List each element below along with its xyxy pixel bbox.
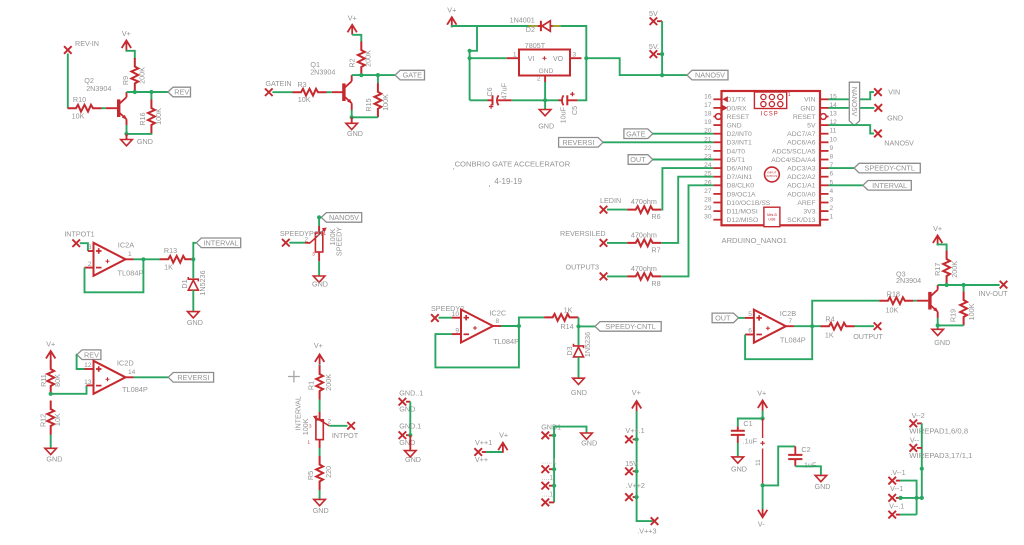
svg-text:R11: R11 — [39, 374, 48, 387]
net flag NANO5V (speedypot) — [321, 213, 361, 223]
pin 15 VIN — [820, 98, 829, 100]
svg-text:V++.1: V++.1 — [625, 426, 644, 435]
pin 4 ADC0/A0 — [820, 193, 829, 195]
svg-text:GATE: GATE — [403, 71, 422, 80]
svg-text:V+: V+ — [348, 13, 357, 22]
ground — [405, 451, 417, 457]
wire R8 to pin26 — [661, 185, 713, 276]
svg-text:2: 2 — [537, 76, 541, 83]
wire output up to R18 — [812, 301, 879, 327]
wire SPEEDY2 to pin10 — [439, 317, 453, 319]
svg-text:GND..1: GND..1 — [399, 388, 423, 397]
wire to C1 — [738, 419, 763, 427]
junction — [149, 90, 153, 94]
power V+ (GATE stage) — [348, 25, 357, 35]
svg-text:220: 220 — [324, 466, 333, 478]
wire GND.1 stub — [406, 434, 410, 436]
junction — [899, 496, 903, 500]
svg-text:3: 3 — [88, 244, 92, 251]
svg-text:R3: R3 — [297, 80, 306, 89]
wire R5 to GND — [319, 490, 321, 499]
ground — [581, 433, 593, 439]
junction — [635, 495, 639, 499]
svg-text:1K: 1K — [564, 305, 573, 314]
wire pin5 to INTERVAL — [829, 184, 863, 186]
svg-text:GATE: GATE — [626, 129, 645, 138]
pin X OUTPUT — [874, 322, 882, 330]
wire Q2 emitter to GND node — [126, 119, 128, 125]
wire Q2 collector — [126, 92, 128, 97]
svg-text:7805T: 7805T — [525, 41, 546, 50]
svg-text:VI: VI — [528, 56, 535, 63]
power V+ (V++ column) — [632, 401, 641, 411]
svg-text:INTERVAL: INTERVAL — [203, 238, 238, 247]
svg-text:14: 14 — [128, 369, 136, 376]
svg-text:GND: GND — [815, 482, 831, 491]
svg-text:.1uF: .1uF — [802, 461, 817, 470]
junction — [468, 56, 472, 60]
svg-text:7: 7 — [788, 318, 792, 325]
pin 10 ADC6/A6 — [820, 141, 829, 143]
svg-text:19: 19 — [704, 119, 712, 126]
pin 18 RESET — [713, 116, 721, 118]
svg-text:200K: 200K — [363, 50, 372, 67]
svg-text:GND.1: GND.1 — [399, 422, 421, 431]
wire VO to NANO5V rail — [586, 58, 687, 75]
op-amp IC2B TL084P — [754, 310, 786, 343]
svg-text:4-19-19: 4-19-19 — [494, 177, 522, 186]
potentiometer INTPOT INTERVAL 100K — [319, 412, 321, 420]
power V+ (V++1) — [498, 443, 507, 453]
wire V--1 — [896, 497, 901, 499]
svg-text:2: 2 — [328, 418, 332, 425]
svg-text:V--.1: V--.1 — [889, 502, 904, 511]
wire OUTPUT3 to R8 — [607, 275, 627, 277]
wire V+ to R2 — [352, 35, 361, 42]
svg-text:RESET: RESET — [793, 114, 816, 121]
transistor Q2 2N3904 — [117, 99, 120, 117]
battery B1 — [762, 419, 764, 439]
wire D1 to GND — [192, 290, 194, 311]
zener diode D3 1N5236 — [574, 344, 584, 348]
net flag REVERSI (arduino) — [559, 138, 604, 148]
svg-text:10: 10 — [830, 136, 838, 143]
wire IC2A feedback — [85, 267, 94, 269]
pin 20 D2/INT0 — [713, 133, 721, 135]
svg-text:ADC4/SDA/A4: ADC4/SDA/A4 — [771, 157, 815, 164]
wire LEDIN to R6 — [607, 209, 627, 211]
svg-text:OUTPUT: OUTPUT — [853, 332, 883, 341]
svg-text:ADC5/SCL/A5: ADC5/SCL/A5 — [772, 148, 816, 155]
svg-text:1K: 1K — [825, 330, 834, 339]
svg-text:C6: C6 — [485, 87, 494, 96]
svg-text:D5/T1: D5/T1 — [727, 157, 746, 164]
op-amp IC2D TL084P — [94, 361, 126, 394]
ground — [937, 325, 939, 329]
resistor R8 470ohm — [627, 273, 661, 280]
svg-text:SPEEDY-CNTL: SPEEDY-CNTL — [605, 322, 655, 331]
wire IC2C output — [493, 325, 501, 327]
svg-text:....1: ....1 — [542, 475, 554, 482]
junction — [576, 324, 580, 328]
svg-text:1K: 1K — [164, 263, 173, 272]
ground — [732, 457, 744, 463]
wire GND1 vertical — [553, 435, 555, 502]
svg-text:VIN: VIN — [804, 97, 815, 104]
svg-text:V+: V+ — [122, 29, 131, 38]
wire V+ top rail to diode — [452, 26, 531, 27]
wire REV flag to pin12 — [77, 355, 85, 369]
junction — [124, 132, 128, 136]
svg-text:ICSP: ICSP — [761, 112, 779, 118]
svg-text:2N3904: 2N3904 — [896, 276, 921, 285]
svg-text:100K: 100K — [301, 418, 310, 435]
svg-text:R17: R17 — [933, 263, 942, 276]
svg-text:SPEEDY-CNTL: SPEEDY-CNTL — [864, 164, 914, 173]
svg-text:1N5236: 1N5236 — [198, 270, 207, 295]
wire R10 to Q2 base — [102, 107, 106, 109]
wire collector node to INV-OUT — [938, 284, 1000, 286]
pin 2 3V3 — [820, 210, 829, 212]
svg-text:USB: USB — [768, 218, 776, 222]
svg-text:22: 22 — [704, 145, 712, 152]
resistor R1 200K — [316, 366, 323, 400]
resistor R19 100K — [963, 285, 965, 292]
svg-text:V++1: V++1 — [475, 438, 492, 447]
svg-text:10K: 10K — [53, 413, 62, 426]
net flag INTERVAL — [196, 238, 240, 248]
op-amp IC2A TL084P — [94, 243, 126, 276]
wire wiper — [289, 242, 305, 244]
svg-text:GND: GND — [727, 123, 742, 130]
svg-text:INV-OUT: INV-OUT — [978, 289, 1008, 298]
wire olive overlap right — [552, 25, 560, 27]
wire V+ down — [762, 411, 764, 419]
svg-text:ADC3/A3: ADC3/A3 — [787, 166, 816, 173]
svg-text:10: 10 — [452, 311, 460, 318]
wire collector node to GATE flag — [352, 74, 395, 76]
wire 5V stub vertical — [661, 21, 663, 75]
svg-text:11: 11 — [755, 459, 762, 466]
pin 28 D10/OC1B/SS — [713, 202, 721, 204]
svg-text:5V: 5V — [807, 123, 816, 130]
ground — [45, 448, 57, 454]
svg-text:GND: GND — [137, 137, 153, 146]
wire V-- stub — [917, 447, 922, 449]
wire GND1 to ground — [554, 427, 586, 436]
wire C2 to GND — [795, 466, 821, 475]
svg-text:GND: GND — [800, 105, 815, 112]
wire wiper — [329, 425, 347, 427]
svg-text:D2/INT0: D2/INT0 — [727, 131, 753, 138]
wire Q3 emitter to GND node — [937, 312, 939, 318]
svg-text:100K: 100K — [967, 303, 976, 320]
wire pin12 to NANO5V — [829, 125, 875, 133]
svg-text:R13: R13 — [164, 246, 177, 255]
junction — [408, 433, 412, 437]
wire to V- — [762, 485, 764, 509]
wire IC2D output — [126, 376, 134, 378]
svg-text:3V3: 3V3 — [803, 209, 815, 216]
svg-text:1N5236: 1N5236 — [583, 332, 592, 357]
junction — [660, 73, 664, 77]
svg-text:SPEEDY: SPEEDY — [334, 227, 343, 256]
svg-text:.V++2: .V++2 — [626, 481, 645, 490]
svg-text:10K: 10K — [886, 305, 899, 314]
capacitor C6 47uF — [488, 99, 493, 101]
wire GND..1 stub — [406, 401, 410, 403]
svg-text:9: 9 — [830, 145, 834, 152]
junction — [359, 73, 363, 77]
net flag REV — [168, 87, 191, 97]
net flag REVERSI — [168, 373, 213, 383]
svg-text:D0/RX: D0/RX — [727, 105, 747, 112]
wire V++1 to V+ — [482, 451, 486, 453]
net flag SPEEDY-CNTL — [595, 322, 661, 332]
pin 19 GND — [713, 124, 721, 126]
svg-text:LEDIN: LEDIN — [600, 196, 621, 205]
wire node to INTERVAL flag — [193, 243, 196, 259]
resistor R16 100K — [150, 92, 152, 100]
svg-text:....1: ....1 — [542, 492, 554, 499]
svg-text:D8/CLK0: D8/CLK0 — [727, 183, 755, 190]
pin 5 ADC1/A1 — [820, 184, 829, 186]
wire .V--1 — [896, 480, 900, 482]
wire to GND symbol — [409, 435, 411, 450]
svg-text:4: 4 — [830, 188, 834, 195]
svg-text:V--: V-- — [910, 435, 920, 444]
junction — [810, 324, 814, 328]
svg-text:SCK/D13: SCK/D13 — [787, 217, 816, 224]
svg-text:8: 8 — [830, 154, 834, 161]
junction — [660, 52, 664, 56]
svg-text:GND: GND — [399, 405, 415, 414]
power V+ (intpot) — [315, 354, 324, 364]
svg-text:R2: R2 — [348, 58, 357, 67]
capacitor C2 .1uF — [794, 446, 796, 454]
svg-text:R16: R16 — [138, 112, 147, 125]
pin 25 D7/AIN1 — [713, 176, 721, 178]
svg-text:NANO5V: NANO5V — [850, 87, 859, 117]
resistor R3 10K — [293, 89, 327, 96]
svg-text:D7/AIN1: D7/AIN1 — [727, 174, 753, 181]
junction — [517, 324, 521, 328]
svg-text:3: 3 — [830, 197, 834, 204]
wire wirepad vertical — [921, 423, 923, 498]
pin 12 5V — [820, 124, 829, 126]
svg-text:2N3904: 2N3904 — [310, 67, 335, 76]
junction — [552, 467, 556, 471]
power V+ (REV stage) — [122, 41, 131, 51]
pin 30 D12/MISO — [713, 219, 721, 221]
svg-text:ADC7/A7: ADC7/A7 — [787, 131, 816, 138]
svg-text:30: 30 — [704, 214, 712, 221]
svg-text:200K: 200K — [324, 374, 333, 391]
wire IC2B feedback — [745, 334, 754, 336]
svg-text:GATEIN: GATEIN — [265, 79, 291, 88]
svg-text:INTPOT1: INTPOT1 — [64, 229, 94, 238]
svg-text:V+: V+ — [314, 341, 323, 350]
wire IC2B output — [786, 325, 794, 327]
pin 13 RESET — [820, 116, 829, 118]
junction — [915, 496, 919, 500]
resistor R9 200K — [131, 58, 138, 92]
svg-text:R4: R4 — [825, 314, 834, 323]
junction — [945, 283, 949, 287]
svg-text:R18: R18 — [887, 289, 900, 298]
junction — [920, 467, 924, 471]
svg-text:R6: R6 — [651, 212, 660, 221]
USB connector — [764, 207, 780, 227]
resistor R4 1K — [821, 323, 855, 330]
RESET bubble left (pin 18) — [715, 114, 721, 120]
svg-text:47uF: 47uF — [499, 82, 508, 99]
svg-text:1: 1 — [513, 52, 517, 59]
svg-text:V+: V+ — [632, 388, 641, 397]
wire VI vertical — [469, 51, 471, 101]
svg-text:.1uF: .1uF — [743, 437, 758, 446]
resistor R14 1K — [544, 314, 578, 321]
wire Q3 collector — [937, 285, 939, 290]
wire node to D1 — [192, 259, 194, 278]
junction — [552, 433, 556, 437]
wire R6 to pin24 — [661, 168, 713, 210]
svg-text:SPEEDYPOT: SPEEDYPOT — [280, 229, 325, 238]
svg-text:GND: GND — [405, 455, 421, 464]
svg-text:200K: 200K — [950, 261, 959, 278]
ground — [313, 276, 325, 282]
capacitor C1 .1uF — [737, 426, 739, 430]
junction — [761, 416, 765, 420]
svg-text:......1: ......1 — [541, 459, 557, 466]
wire pin15 to VIN — [829, 92, 875, 99]
pin X VIN — [874, 88, 882, 96]
svg-text:TL084P: TL084P — [122, 385, 148, 394]
pin 9 ADC5/SCL/A5 — [820, 150, 829, 152]
svg-text:V+: V+ — [499, 430, 508, 439]
svg-text:1: 1 — [788, 92, 791, 98]
wire output up to R14 — [519, 317, 544, 326]
svg-text:REV-IN: REV-IN — [75, 39, 99, 48]
svg-text:ADC1/A1: ADC1/A1 — [787, 183, 816, 190]
svg-text:11: 11 — [830, 128, 837, 135]
wire bottom rail mid — [512, 99, 559, 101]
svg-text:R14: R14 — [560, 322, 573, 331]
ICSP header — [754, 92, 786, 109]
svg-text:D9/OC1A: D9/OC1A — [727, 191, 757, 198]
pin X .V++3 — [651, 517, 659, 525]
wire to C2 — [763, 446, 796, 485]
ground — [314, 499, 326, 505]
resistor R11 80K — [47, 361, 54, 395]
wire REVERSI flag to pin21 — [603, 141, 713, 143]
junction — [468, 49, 472, 53]
svg-text:IC2A: IC2A — [118, 241, 135, 250]
wire R14 to node — [577, 316, 579, 318]
svg-text:200K: 200K — [137, 67, 146, 84]
junction — [317, 215, 321, 219]
diode D2 1N4001 — [538, 25, 541, 27]
wire REVERSILED to R7 — [607, 242, 627, 244]
svg-text:D3: D3 — [565, 346, 574, 355]
junction — [376, 73, 380, 77]
ground — [126, 134, 128, 140]
svg-text:GND: GND — [187, 318, 203, 327]
svg-text:.V--1: .V--1 — [890, 468, 905, 477]
resistor R2 200K — [358, 42, 365, 76]
svg-text:R8: R8 — [651, 279, 660, 288]
svg-text:D1/TX: D1/TX — [727, 97, 747, 104]
svg-text:V-: V- — [758, 520, 765, 529]
svg-text:CONBRIO GATE ACCELERATOR: CONBRIO GATE ACCELERATOR — [455, 159, 571, 168]
wire V+ to R11 — [50, 360, 52, 363]
svg-text:ADC6/A6: ADC6/A6 — [787, 140, 816, 147]
junction — [635, 469, 639, 473]
svg-text:10K: 10K — [298, 95, 311, 104]
RX arrow (pin 17) — [722, 105, 728, 111]
svg-text:REV: REV — [174, 88, 189, 97]
wire NANO5V to pot — [319, 217, 321, 226]
svg-text:IC2D: IC2D — [117, 358, 134, 367]
svg-text:NANO5V: NANO5V — [329, 213, 359, 222]
svg-text:D1: D1 — [180, 279, 189, 288]
svg-text:TL084P: TL084P — [118, 268, 144, 277]
svg-text:100K: 100K — [381, 94, 390, 111]
svg-text:SPEEDY2: SPEEDY2 — [431, 304, 464, 313]
wire collector node to REV flag — [127, 91, 169, 93]
svg-text:AREF: AREF — [797, 200, 815, 207]
svg-text:GND: GND — [539, 68, 554, 75]
wire GATE flag to pin20 — [653, 133, 714, 135]
pin 22 D4/T0 — [713, 150, 721, 152]
svg-text:5: 5 — [748, 311, 752, 318]
svg-text:470ohm: 470ohm — [631, 230, 657, 239]
svg-text:GND: GND — [538, 121, 554, 130]
svg-text:OUT: OUT — [715, 314, 731, 323]
transistor Q1 2N3904 — [342, 83, 345, 101]
svg-text:29: 29 — [704, 205, 712, 212]
wire IC2A output — [126, 258, 134, 260]
wire R18 to Q3 base — [913, 300, 916, 302]
svg-text:GND: GND — [571, 388, 587, 397]
svg-text:GND: GND — [347, 129, 363, 138]
svg-text:REVERSI: REVERSI — [177, 373, 209, 382]
net flag SPEEDY-CNTL (arduino) — [854, 163, 920, 173]
svg-text:28: 28 — [704, 197, 712, 204]
wire GND pin down — [544, 82, 546, 100]
resistor R6 470ohm — [627, 206, 661, 213]
wire bottom rail left — [470, 99, 488, 101]
pin X GND — [875, 104, 883, 112]
svg-text:D10/OC1B/SS: D10/OC1B/SS — [727, 200, 771, 207]
origin cross — [288, 371, 300, 383]
ground — [815, 475, 827, 481]
wire R1 to pot — [319, 400, 321, 413]
svg-text:,: , — [453, 162, 455, 171]
svg-text:R12: R12 — [38, 414, 47, 427]
svg-text:TL084P: TL084P — [780, 335, 806, 344]
svg-text:INTERVAL: INTERVAL — [872, 181, 907, 190]
junction — [133, 90, 137, 94]
junction — [552, 484, 556, 488]
wire node to D3 — [578, 326, 580, 345]
svg-text:,: , — [488, 179, 490, 188]
power V- (down arrow) — [758, 509, 767, 517]
wire R4 to OUTPUT — [855, 325, 875, 327]
svg-text:INTPOT: INTPOT — [332, 431, 359, 440]
junction — [936, 323, 940, 327]
svg-text:R15: R15 — [364, 98, 373, 111]
